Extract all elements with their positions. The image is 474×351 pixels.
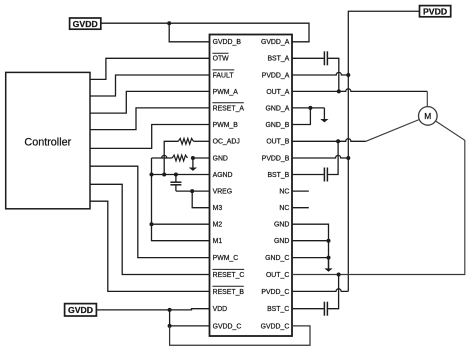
svg-text:GND: GND bbox=[274, 238, 289, 245]
wire pin GND (13) bbox=[292, 240, 329, 242]
pin label GVDD_C (left pin 18) bbox=[213, 323, 242, 330]
pin label GVDD_B (left pin 1) bbox=[213, 39, 242, 46]
wire pin BST_A to capacitor C2 bbox=[292, 57, 324, 59]
pin label NC (right pin 10) bbox=[279, 189, 289, 196]
wire down to AGND bbox=[151, 158, 153, 175]
svg-text:GVDD_A: GVDD_A bbox=[261, 39, 290, 46]
wire R1 to AGND node bbox=[164, 141, 178, 174]
svg-text:M3: M3 bbox=[213, 205, 223, 212]
junction M2 bbox=[150, 222, 154, 226]
wire controller to pin PWM_B bbox=[90, 125, 210, 149]
wire stub pin NC (10) bbox=[292, 190, 309, 192]
pin label RESET_C (left pin 15) bbox=[212, 269, 244, 279]
svg-text:GND: GND bbox=[213, 155, 228, 162]
pin label OUT_A (right pin 4) bbox=[266, 89, 289, 96]
pin label BST_C (right pin 17) bbox=[267, 306, 289, 313]
wire controller to pin RESET_C bbox=[90, 184, 210, 274]
pin label GND (left pin 8) bbox=[213, 155, 228, 162]
wire pin OC_ADJ to resistor R1 bbox=[194, 140, 210, 142]
junction AGND / capacitor C1 bbox=[174, 173, 178, 177]
svg-text:VREG: VREG bbox=[213, 189, 233, 196]
wire pin PVDD_C to rail corner (hop over BST_C drop) bbox=[292, 289, 348, 292]
junction AGND / GND branch bbox=[150, 173, 154, 177]
junction PVDD_A / rail bbox=[346, 73, 350, 77]
wire pin GND_C bbox=[292, 257, 329, 259]
wire net VREG bbox=[176, 190, 210, 192]
wire pin GND_A to ground bbox=[292, 107, 324, 109]
junction VREG / M3 bbox=[190, 189, 194, 193]
svg-text:OUT_B: OUT_B bbox=[266, 139, 289, 146]
wire controller to pin PWM_A bbox=[90, 91, 210, 113]
wire GVDD to pin GVDD_B bbox=[169, 23, 209, 42]
wire C2 to OUT_A bbox=[328, 58, 339, 91]
svg-text:M: M bbox=[424, 111, 431, 121]
svg-text:M2: M2 bbox=[213, 222, 223, 229]
pin label PWM_C (left pin 14) bbox=[213, 255, 239, 262]
pin label GND (right pin 12) bbox=[274, 222, 289, 229]
junction GND_A / GND_B bbox=[308, 106, 312, 110]
pin label NC (right pin 11) bbox=[279, 205, 289, 212]
wire net OUT_A to motor (hop over rail) bbox=[292, 89, 427, 92]
wire GVDD bottom to pin VDD bbox=[96, 309, 209, 310]
junction GND 13 bbox=[327, 239, 331, 243]
pin label PWM_B (left pin 6) bbox=[213, 122, 239, 129]
wire bottom loop to GVDD_C right pin bbox=[170, 326, 310, 345]
svg-text:GVDD_C: GVDD_C bbox=[213, 323, 242, 330]
pin label M2 (left pin 12) bbox=[213, 222, 223, 229]
svg-text:PVDD_B: PVDD_B bbox=[262, 155, 290, 162]
svg-text:GND_A: GND_A bbox=[266, 105, 290, 112]
junction VDD / GVDD_C branch bbox=[168, 308, 172, 312]
motor M1 (circle with M) bbox=[419, 107, 438, 126]
svg-text:RESET_B: RESET_B bbox=[213, 289, 245, 296]
svg-text:AGND: AGND bbox=[213, 172, 233, 179]
junction OUT_B / C3 bbox=[336, 139, 340, 143]
IC U1 (motor driver) bbox=[210, 35, 293, 337]
svg-text:PVDD: PVDD bbox=[423, 6, 447, 16]
pin label GVDD_C (right pin 18) bbox=[261, 323, 290, 330]
pin label OC_ADJ (left pin 7) bbox=[213, 139, 240, 146]
pin label GND_C (right pin 14) bbox=[265, 255, 289, 262]
resistor R2 bbox=[172, 155, 187, 161]
junction R2 / GND pin / arrow bbox=[191, 156, 195, 160]
pin label PVDD_C (right pin 16) bbox=[261, 289, 289, 296]
svg-text:GVDD: GVDD bbox=[68, 305, 93, 315]
wire AGND down to M2 bbox=[152, 175, 210, 225]
pin label OUT_B (right pin 7) bbox=[266, 139, 289, 146]
ground arrow at R2/GND pin bbox=[192, 158, 194, 168]
svg-text:GVDD: GVDD bbox=[73, 19, 98, 29]
wire controller to pin PWM_C bbox=[90, 166, 210, 257]
svg-text:PWM_A: PWM_A bbox=[213, 89, 239, 96]
wire net AGND bbox=[152, 174, 210, 176]
wire controller to pin OTW bbox=[90, 58, 210, 79]
svg-text:GND_C: GND_C bbox=[265, 255, 289, 262]
capacitor C1 (AGND-VREG) bbox=[170, 175, 181, 192]
junction OUT_C / C4 bbox=[337, 273, 341, 277]
wire pin GND to resistor R2 bbox=[193, 157, 210, 159]
svg-text:GVDD_B: GVDD_B bbox=[213, 39, 242, 46]
wire VREG to pin M3 bbox=[192, 191, 209, 208]
capacitor C4 (BST_C) bbox=[324, 302, 327, 316]
junction OUT_A / C2 bbox=[337, 89, 341, 93]
pin label PVDD_B (right pin 8) bbox=[262, 155, 290, 162]
ground arrow GND_A bbox=[323, 108, 325, 120]
pin label GVDD_A (right pin 1) bbox=[261, 39, 290, 46]
wire C4 to OUT_C bbox=[328, 275, 339, 309]
ground arrow GND_C group bbox=[328, 258, 330, 270]
resistor R1 bbox=[178, 138, 193, 144]
svg-text:PWM_B: PWM_B bbox=[213, 122, 239, 129]
svg-text:RESET_A: RESET_A bbox=[213, 105, 245, 112]
wire stub pin NC (11) bbox=[292, 207, 309, 209]
svg-text:OUT_C: OUT_C bbox=[266, 272, 289, 279]
power flag PVDD (top right) bbox=[420, 6, 451, 17]
power flag GVDD (top) bbox=[70, 18, 101, 29]
wire net GVDD top rail bbox=[101, 23, 309, 42]
junction AGND / OC_ADJ branch bbox=[162, 173, 166, 177]
svg-text:OC_ADJ: OC_ADJ bbox=[213, 139, 240, 146]
svg-text:OUT_A: OUT_A bbox=[266, 89, 289, 96]
junction GVDD top bbox=[167, 21, 171, 25]
wire pin GND (12) to ground drop bbox=[292, 224, 329, 268]
pin label OUT_C (right pin 15) bbox=[266, 272, 289, 279]
pin label GND_A (right pin 5) bbox=[266, 105, 290, 112]
wire C3 to OUT_B bbox=[328, 141, 338, 174]
wire pin BST_B to capacitor C3 bbox=[292, 174, 324, 176]
svg-text:VDD: VDD bbox=[213, 306, 228, 313]
svg-text:PVDD_A: PVDD_A bbox=[262, 72, 290, 79]
pin label PVDD_A (right pin 3) bbox=[262, 72, 290, 79]
svg-text:PVDD_C: PVDD_C bbox=[261, 289, 289, 296]
svg-text:M1: M1 bbox=[213, 238, 223, 245]
wire controller to pin RESET_A bbox=[90, 108, 210, 130]
svg-text:GND_B: GND_B bbox=[266, 122, 290, 129]
pin label BST_B (right pin 9) bbox=[267, 172, 289, 179]
wire OUT_B diagonal to motor bbox=[366, 120, 420, 142]
svg-text:PWM_C: PWM_C bbox=[213, 255, 239, 262]
junction GVDD_C left bbox=[168, 324, 172, 328]
pin label M1 (left pin 13) bbox=[213, 238, 223, 245]
svg-text:NC: NC bbox=[279, 205, 289, 212]
wire net OUT_B (hop over rail) bbox=[292, 139, 366, 142]
svg-text:BST_C: BST_C bbox=[267, 306, 289, 313]
wire net PVDD rail bbox=[348, 11, 419, 291]
wire pin PVDD_B to rail (hop over BST_B drop) bbox=[292, 155, 348, 158]
pin label VREG (left pin 10) bbox=[213, 189, 233, 196]
pin label GND (right pin 13) bbox=[274, 238, 289, 245]
pin label AGND (left pin 9) bbox=[213, 172, 233, 179]
svg-text:GND: GND bbox=[274, 222, 289, 229]
pin label BST_A (right pin 2) bbox=[267, 56, 289, 63]
svg-text:Controller: Controller bbox=[24, 136, 71, 148]
svg-text:GVDD_C: GVDD_C bbox=[261, 323, 290, 330]
pin label OTW (left pin 2) bbox=[212, 53, 229, 63]
pin label M3 (left pin 11) bbox=[213, 205, 223, 212]
junction GND_C bbox=[327, 256, 331, 260]
svg-text:BST_A: BST_A bbox=[267, 56, 289, 63]
svg-text:OTW: OTW bbox=[213, 56, 230, 63]
pin label RESET_A (left pin 5) bbox=[212, 103, 244, 113]
junction PVDD_B / rail bbox=[346, 156, 350, 160]
svg-text:RESET_C: RESET_C bbox=[213, 272, 245, 279]
wire controller to pin RESET_B bbox=[90, 201, 210, 291]
pin label GND_B (right pin 6) bbox=[266, 122, 290, 129]
wire net OUT_C bbox=[292, 121, 465, 275]
wire down to GVDD_C left pin bbox=[170, 310, 210, 326]
svg-text:FAULT: FAULT bbox=[213, 72, 235, 79]
power flag GVDD (bottom) bbox=[65, 304, 97, 316]
pin label RESET_B (left pin 16) bbox=[212, 286, 244, 296]
controller U2 bbox=[6, 72, 90, 208]
pin label VDD (left pin 17) bbox=[213, 306, 228, 313]
pin label FAULT (left pin 3) bbox=[212, 70, 234, 80]
wire M2 to pin M1 bbox=[152, 224, 210, 241]
wire pin BST_C to capacitor C4 bbox=[292, 308, 324, 310]
capacitor C2 (BST_A) bbox=[324, 51, 327, 65]
svg-text:BST_B: BST_B bbox=[267, 172, 289, 179]
pin label PWM_A (left pin 4) bbox=[213, 89, 239, 96]
svg-text:NC: NC bbox=[279, 189, 289, 196]
wire OUT_A drop to motor bbox=[426, 91, 428, 106]
wire controller to pin FAULT bbox=[90, 75, 210, 96]
wire R2 left with hop over OC_ADJ drop bbox=[152, 155, 173, 158]
capacitor C3 (BST_B) bbox=[324, 168, 327, 182]
wire GND_A to pin GND_B bbox=[292, 108, 310, 125]
wire pin PVDD_A to rail (hop over BST drop) bbox=[292, 72, 348, 75]
